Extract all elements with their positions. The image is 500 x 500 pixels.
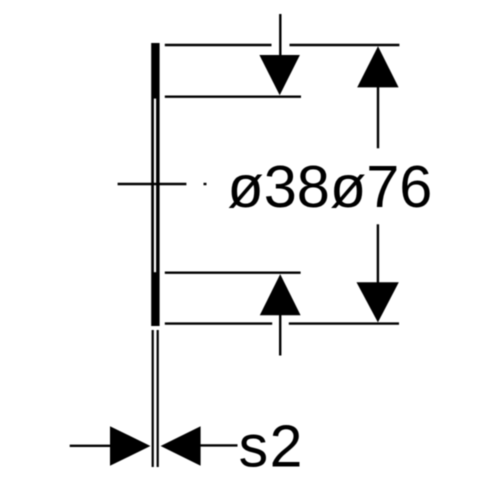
svg-text:s2: s2 xyxy=(239,414,304,480)
svg-text:ø38ø76: ø38ø76 xyxy=(227,154,432,220)
